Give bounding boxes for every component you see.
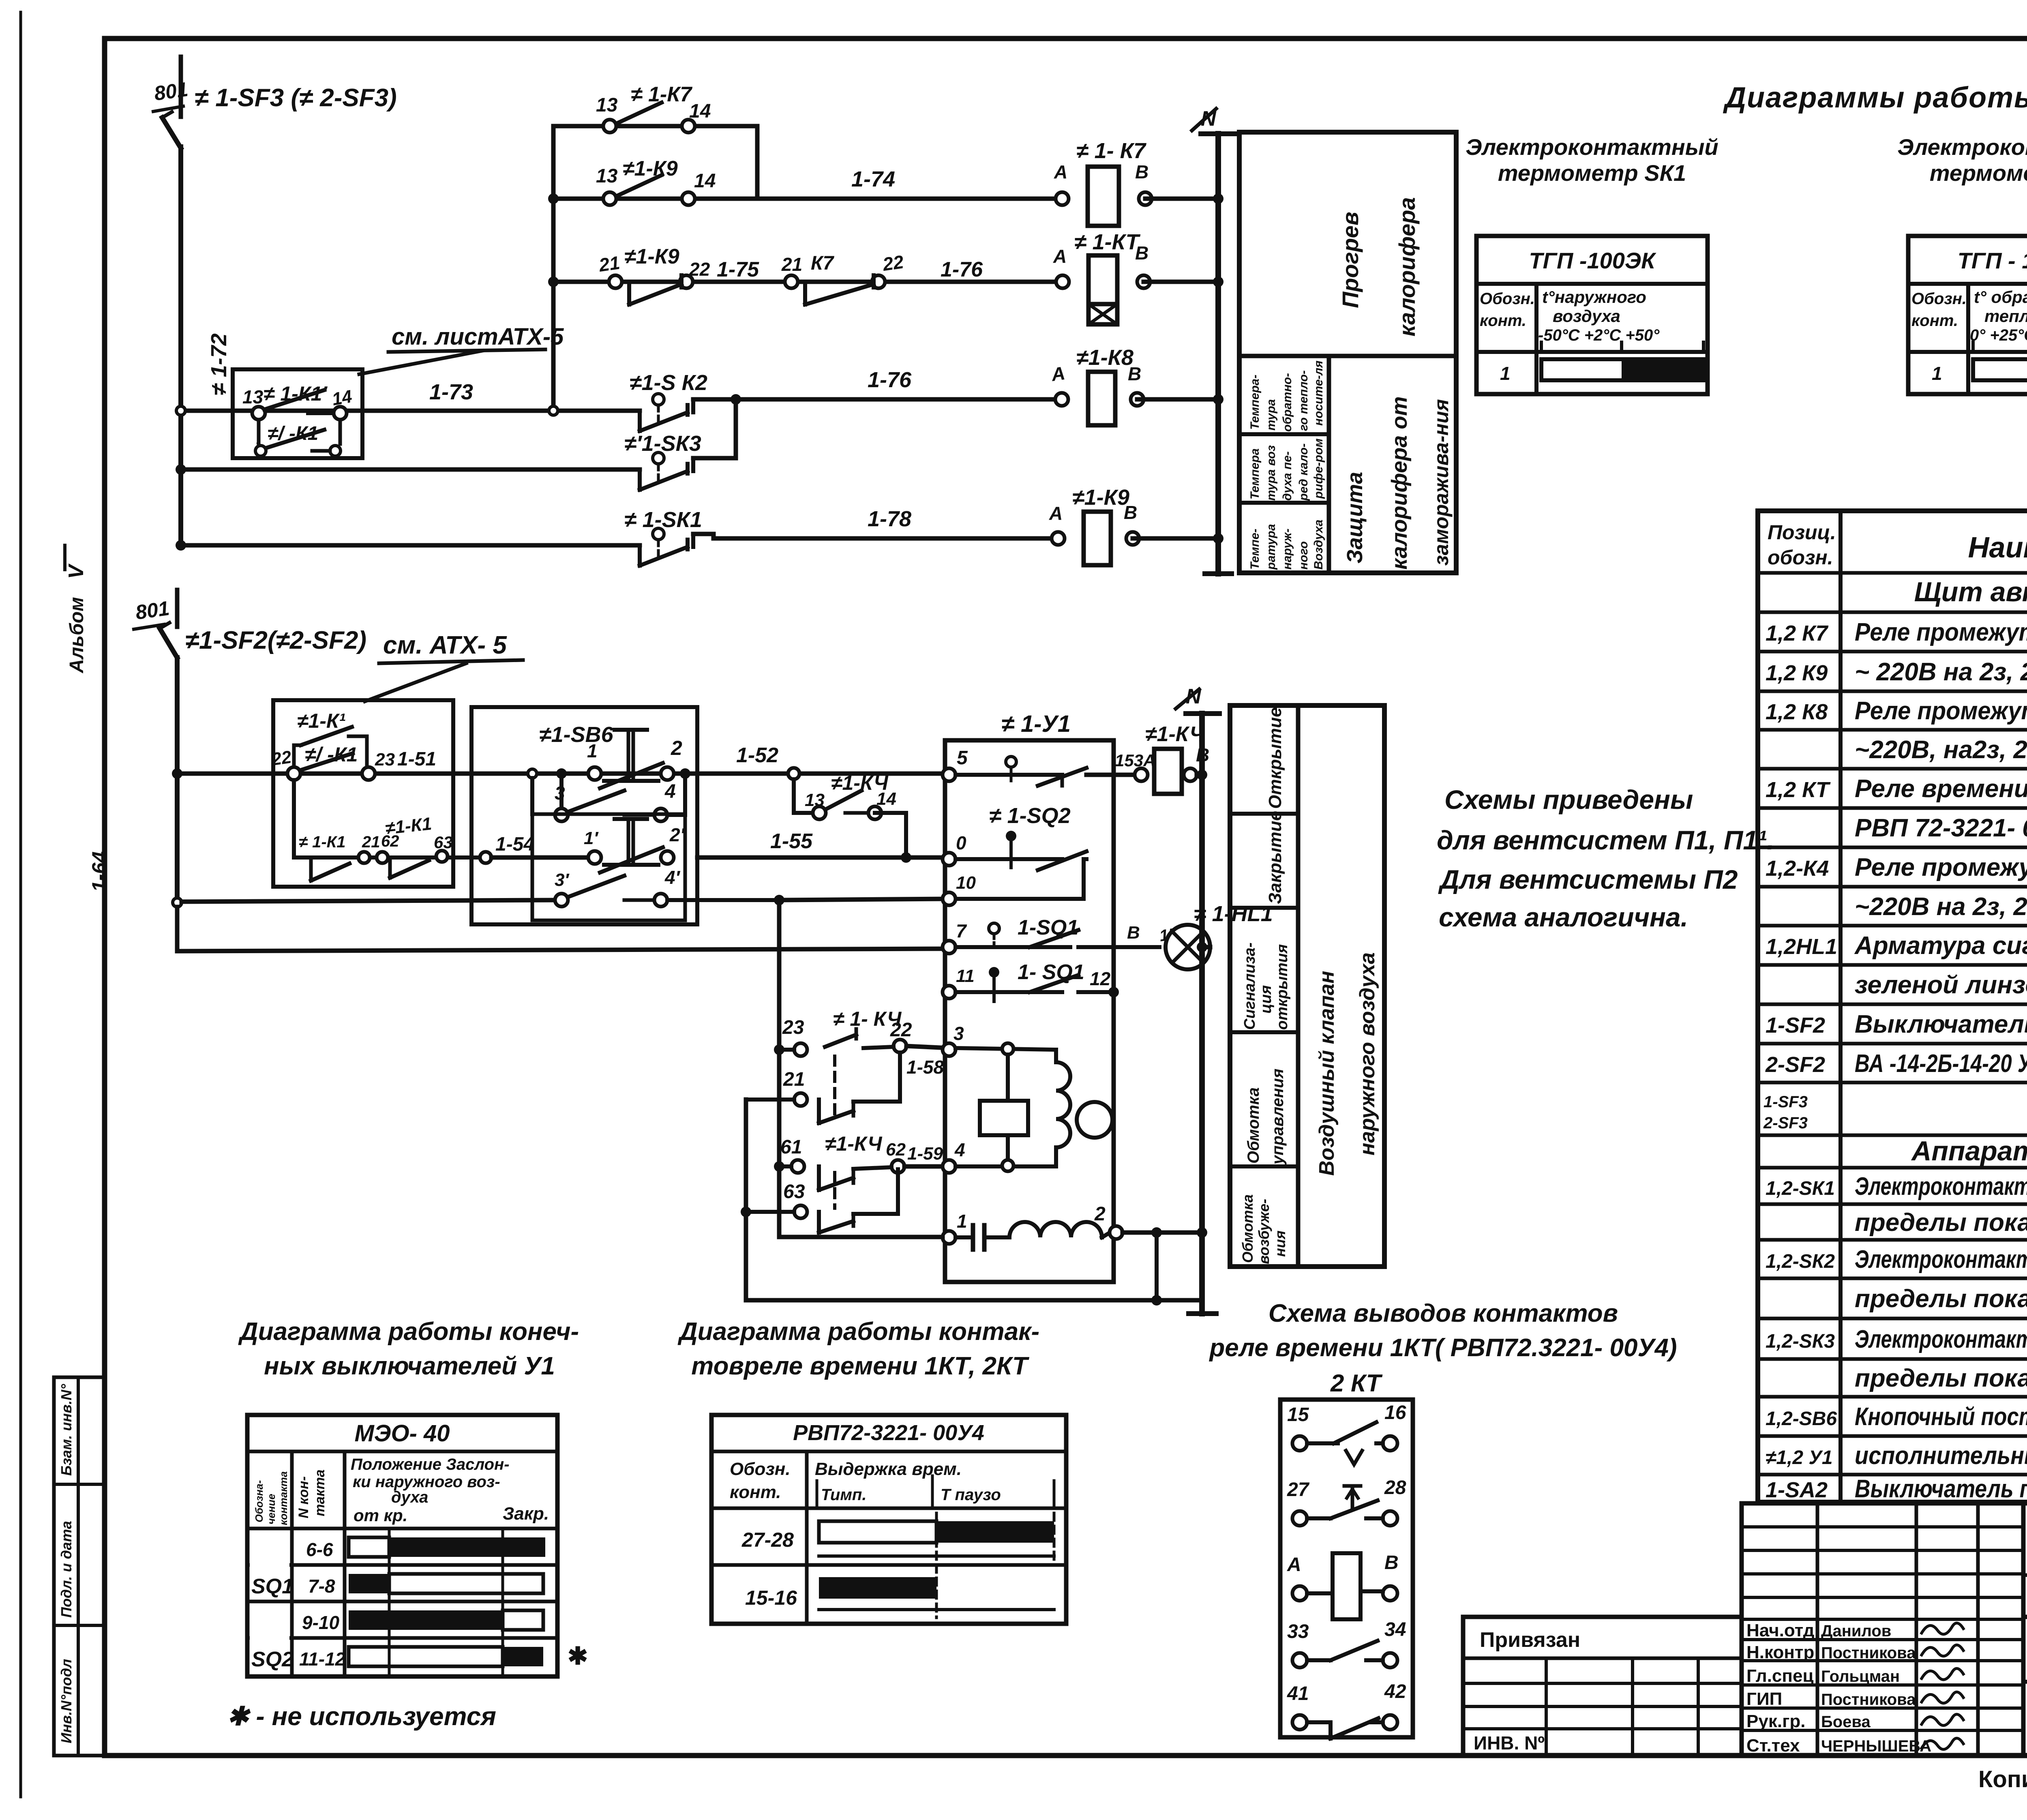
staff row Нач.отд <box>1746 1621 1891 1640</box>
N bus circuit 2 <box>1199 714 1205 1314</box>
svg-text:Реле промежуточное РПУ2- 0622: Реле промежуточное РПУ2- 06222УЗА <box>1855 853 2027 881</box>
svg-text:0: 0 <box>956 832 966 853</box>
svg-text:41: 41 <box>1287 1683 1309 1704</box>
section Apparatura po mestu <box>1911 1136 2027 1166</box>
svg-text:14: 14 <box>689 101 711 122</box>
terminal 7 <box>943 941 956 954</box>
svg-text:≠′1-SК3: ≠′1-SК3 <box>624 431 701 456</box>
svg-text:1-SF2: 1-SF2 <box>1766 1013 1825 1038</box>
svg-text:А: А <box>1287 1554 1301 1576</box>
svg-text:Прогрев: Прогрев <box>1337 212 1363 308</box>
row SB6 <box>1766 1403 2027 1431</box>
svg-text:14: 14 <box>694 170 716 192</box>
feed wire from SF2 bus lower <box>173 898 182 907</box>
lower row in K1 box <box>294 855 480 860</box>
svg-text:1-58: 1-58 <box>906 1057 944 1078</box>
link 62 to 63 output <box>896 1169 900 1214</box>
2KT box <box>1280 1400 1413 1737</box>
svg-text:Диаграмма работы контак-: Диаграмма работы контак- <box>677 1318 1039 1346</box>
svg-text:13: 13 <box>596 165 618 187</box>
svg-text:4: 4 <box>664 781 676 802</box>
link 22 to 21 output <box>898 1053 902 1102</box>
svg-text:пределы показаний -50°С ÷ +5: пределы показаний -50°С ÷ +50°С <box>1855 1209 2027 1237</box>
inner frame of SB6 contacts <box>532 814 685 920</box>
svg-text:открытия: открытия <box>1274 944 1291 1030</box>
wire K7 to N <box>1145 197 1218 201</box>
wire SK3 row <box>181 467 640 472</box>
svg-text:153А: 153А <box>1115 751 1155 770</box>
row SF2 b <box>1765 1050 2027 1078</box>
svg-text:2′: 2′ <box>669 824 686 845</box>
svg-text:Альбом: Альбом <box>66 597 88 673</box>
svg-text:~220В, на2з, 2р, 2п конт.: ~220В, на2з, 2р, 2п конт. <box>1855 736 2027 764</box>
svg-text:2-SF2: 2-SF2 <box>1765 1053 1825 1077</box>
contact 61 1-K4 62 <box>791 1160 804 1173</box>
svg-text:≠/ -К1: ≠/ -К1 <box>268 423 318 444</box>
wire 21/63 common to bottom <box>744 1100 748 1300</box>
svg-text:≠ 1-К1′: ≠ 1-К1′ <box>264 382 328 405</box>
svg-text:Закрытие: Закрытие <box>1265 811 1285 904</box>
svg-text:см. листАТХ-5: см. листАТХ-5 <box>392 324 564 350</box>
svg-text:Для вентсистемы П2: Для вентсистемы П2 <box>1438 864 1738 894</box>
svg-text:1-74: 1-74 <box>851 167 895 191</box>
wire from K4 block to terminal 1 <box>779 1235 943 1239</box>
svg-text:1,2 К9: 1,2 К9 <box>1766 661 1828 685</box>
staff row Н.контр <box>1746 1642 1916 1662</box>
contact 13 1-K7 14 <box>603 103 695 133</box>
svg-text:1,2-SК1: 1,2-SК1 <box>1766 1178 1835 1199</box>
N bus circuit 1 <box>1215 134 1221 574</box>
staff row Гл.спец <box>1746 1666 1900 1686</box>
MEO bar row wB <box>349 1647 503 1666</box>
svg-text:ных выключателей У1: ных выключателей У1 <box>264 1352 555 1380</box>
svg-text:Электроконтактный: Электроконтактный <box>1466 134 1718 160</box>
row SK2 <box>1766 1245 2027 1273</box>
svg-text:10: 10 <box>956 873 976 893</box>
relay coil 1-K4 <box>1154 749 1182 794</box>
svg-text:Сигнализа-: Сигнализа- <box>1241 942 1258 1030</box>
svg-text:1-76: 1-76 <box>941 258 983 281</box>
svg-text:~ 220В на 2з, 2р конт.: ~ 220В на 2з, 2р конт. <box>1855 658 2027 686</box>
mech link dashes 2 <box>833 1173 836 1208</box>
row HL1 b <box>1855 971 2027 999</box>
bus wire below SF2 <box>175 658 180 902</box>
wire 1-76 to K8 <box>693 397 736 402</box>
row SF2 <box>1766 1010 2027 1038</box>
svg-text:≠1-К8: ≠1-К8 <box>1076 345 1133 370</box>
svg-text:33: 33 <box>1287 1621 1309 1642</box>
svg-text:3′: 3′ <box>555 870 570 890</box>
svg-text:Обозн.: Обозн. <box>1480 290 1535 308</box>
svg-text:15: 15 <box>1287 1404 1309 1426</box>
MEO merged cells fix <box>250 1531 289 1599</box>
mech link dashes <box>833 1056 836 1117</box>
svg-text:Н.контр: Н.контр <box>1746 1642 1814 1662</box>
svg-text:обратно-: обратно- <box>1281 373 1294 432</box>
vertical to bottom return <box>1155 1233 1159 1295</box>
svg-text:N кон-: N кон- <box>296 1476 311 1518</box>
svg-text:Обозн.: Обозн. <box>1911 290 1967 308</box>
sheet left edge line <box>19 12 22 1797</box>
wire 1-73 row <box>181 409 640 413</box>
svg-text:Реле промежуточное РПУ2-062: Реле промежуточное РПУ2-06222 УЗА <box>1855 697 2027 725</box>
svg-text:801: 801 <box>134 597 171 624</box>
terminal 2 <box>1110 1226 1123 1239</box>
svg-text:ЧЕРНЫШЕВА: ЧЕРНЫШЕВА <box>1821 1737 1931 1755</box>
relay coil 1-K8 <box>1088 372 1115 425</box>
row K4 b <box>1855 893 2027 921</box>
svg-text:Постникова: Постникова <box>1821 1691 1916 1709</box>
svg-text:t°наружного: t°наружного <box>1542 287 1646 307</box>
MEO table <box>247 1415 557 1676</box>
svg-text:зеленой линзой АС-22D ~220: зеленой линзой АС-22D ~220В,50Гц <box>1855 971 2027 999</box>
svg-text:1: 1 <box>1500 363 1511 384</box>
svg-text:го тепло-: го тепло- <box>1297 370 1310 431</box>
svg-text:2-SF3: 2-SF3 <box>1763 1114 1808 1132</box>
svg-text:7: 7 <box>956 920 967 941</box>
svg-text:7-8: 7-8 <box>308 1576 335 1597</box>
svg-text:1,2 К7: 1,2 К7 <box>1766 621 1829 645</box>
svg-text:1-76: 1-76 <box>868 368 912 392</box>
svg-text:Диаграмма работы конеч-: Диаграмма работы конеч- <box>238 1318 579 1346</box>
svg-text:34: 34 <box>1384 1619 1406 1640</box>
svg-text:МЭО- 40: МЭО- 40 <box>354 1420 450 1447</box>
svg-text:конт.: конт. <box>1480 312 1526 330</box>
MEO bars <box>388 1528 391 1676</box>
svg-text:духа пе-: духа пе- <box>1281 451 1294 501</box>
K4 aux contact feed vertical <box>777 900 782 1237</box>
svg-text:V: V <box>64 563 88 579</box>
svg-text:Реле промежуточное РПУ2- 0622: Реле промежуточное РПУ2- 0622 0УЗА <box>1855 618 2027 646</box>
svg-text:≠1-SF2(≠2-SF2): ≠1-SF2(≠2-SF2) <box>185 626 366 654</box>
contact 1-K1 lower right <box>388 857 392 878</box>
svg-text:Тимп.: Тимп. <box>821 1486 866 1504</box>
svg-text:Открытие: Открытие <box>1265 707 1285 809</box>
svg-text:22: 22 <box>890 1019 912 1041</box>
bypass contact 3-4 <box>559 774 564 815</box>
svg-text:≠1-К9: ≠1-К9 <box>623 157 678 180</box>
svg-text:Обозн.: Обозн. <box>730 1459 791 1479</box>
terminal 10 <box>943 892 956 905</box>
svg-text:1,2-SК3: 1,2-SК3 <box>1766 1331 1835 1352</box>
svg-text:духа: духа <box>391 1488 428 1506</box>
svg-text:16: 16 <box>1384 1402 1406 1423</box>
parts list rows <box>1758 571 2027 575</box>
svg-text:ТГП -100ЭК: ТГП -100ЭК <box>1529 248 1656 273</box>
svg-text:Электроконтактный термометр Т: Электроконтактный термометр ТГП-100ЭК <box>1855 1173 2027 1200</box>
wire 1-64 row <box>177 772 949 776</box>
svg-text:такта: такта <box>312 1469 328 1516</box>
svg-text:наруж-: наруж- <box>1281 529 1294 570</box>
svg-text:≠1-К¹: ≠1-К¹ <box>297 710 346 732</box>
svg-text:≠ 1-К7: ≠ 1-К7 <box>631 83 692 106</box>
RVP table <box>711 1415 1066 1624</box>
terminal 1 <box>943 1231 956 1244</box>
title block top line <box>1742 1501 2027 1506</box>
svg-text:6-6: 6-6 <box>306 1539 333 1560</box>
breaker 1-SF2 <box>175 590 180 627</box>
svg-text:Обозна-: Обозна- <box>253 1480 265 1522</box>
svg-text:управления: управления <box>1269 1069 1287 1165</box>
junction circle on 1-64 at SB6 <box>528 769 537 778</box>
svg-text:4: 4 <box>954 1139 965 1160</box>
contact K1 bracket (1-K1 sup) <box>294 745 301 768</box>
MEO bar row Bw <box>349 1610 503 1630</box>
svg-text:пределы показаний 0°÷ +150°С: пределы показаний 0°÷ +150°С <box>1855 1285 2027 1313</box>
svg-text:Электроконтактный термометрТГ: Электроконтактный термометрТГП-100ЭК <box>1855 1245 2027 1273</box>
svg-text:-50°С +2°С +50°: -50°С +2°С +50° <box>1538 326 1660 344</box>
svg-text:≠ 1-К1: ≠ 1-К1 <box>299 833 345 851</box>
wire top branch row <box>553 124 757 129</box>
timer coil A-B <box>1287 1552 1399 1619</box>
svg-text:14: 14 <box>876 789 896 809</box>
svg-text:≠ 1-SК1: ≠ 1-SК1 <box>624 508 702 532</box>
svg-text:тура воз: тура воз <box>1264 445 1278 501</box>
svg-text:схема аналогична.: схема аналогична. <box>1439 902 1688 932</box>
svg-text:В: В <box>1127 923 1140 943</box>
svg-text:1-SQ1: 1-SQ1 <box>1018 916 1078 939</box>
row K9 <box>1766 658 2027 686</box>
svg-text:ИНВ. Nº: ИНВ. Nº <box>1474 1732 1545 1754</box>
svg-text:SQ2: SQ2 <box>251 1648 294 1671</box>
svg-text:Положение Заслон-: Положение Заслон- <box>351 1456 510 1473</box>
svg-text:2 КТ: 2 КТ <box>1330 1370 1383 1397</box>
svg-text:РВП 72-3221- 00У4 ~220В: РВП 72-3221- 00У4 ~220В <box>1855 814 2027 842</box>
svg-text:РВП72-3221- 00У4: РВП72-3221- 00У4 <box>793 1421 984 1445</box>
wire 1-54 to SB6 <box>480 852 491 863</box>
svg-text:✱ - не используется: ✱ - не используется <box>227 1702 496 1731</box>
contact 13 1-K1p 14 <box>252 407 265 420</box>
svg-text:исполнительный механизм ~220: исполнительный механизм ~220В МЭО <box>1855 1442 2027 1470</box>
svg-text:Схемы приведены: Схемы приведены <box>1444 785 1693 815</box>
TP number cell <box>2021 1503 2026 1617</box>
svg-text:1: 1 <box>587 740 598 761</box>
svg-text:1,2-SВ6: 1,2-SВ6 <box>1766 1408 1837 1430</box>
contact 21 1-K4 <box>794 1093 807 1106</box>
row SF3 <box>1763 1093 2027 1132</box>
svg-text:≠1,2 У1: ≠1,2 У1 <box>1766 1447 1833 1468</box>
svg-text:1,2HL1: 1,2HL1 <box>1766 935 1837 959</box>
signatures squiggles <box>1922 1623 1963 1634</box>
svg-text:≠1-КЧ: ≠1-КЧ <box>1145 722 1205 746</box>
timer contact 15-16 <box>1287 1402 1406 1464</box>
svg-text:4′: 4′ <box>664 867 681 888</box>
svg-text:23: 23 <box>375 750 395 770</box>
svg-text:11: 11 <box>956 966 975 986</box>
svg-text:Обмотка: Обмотка <box>1239 1194 1256 1263</box>
svg-text:ния: ния <box>1272 1230 1288 1257</box>
button box 1-SB6 <box>471 707 697 924</box>
svg-text:14: 14 <box>330 386 354 409</box>
svg-text:товреле времени 1КТ, 2КТ: товреле времени 1КТ, 2КТ <box>691 1352 1030 1380</box>
svg-text:Подл. и дата: Подл. и дата <box>58 1521 75 1618</box>
svg-text:Воздушный клапан: Воздушный клапан <box>1315 971 1339 1176</box>
junction 1-73/riser <box>549 406 558 415</box>
left margin stamp table <box>54 1377 105 1756</box>
svg-text:Постникова: Постникова <box>1821 1644 1916 1662</box>
inductor <box>1009 1222 1102 1237</box>
svg-text:Привязан: Привязан <box>1480 1628 1580 1652</box>
svg-text:✱: ✱ <box>568 1642 588 1670</box>
aux contact box 1-K1 (see sheet ATX-5) <box>233 369 362 458</box>
svg-text:Данилов: Данилов <box>1821 1622 1891 1640</box>
svg-text:21: 21 <box>781 254 802 275</box>
svg-text:22: 22 <box>689 259 710 280</box>
svg-text:ного: ного <box>1297 541 1310 570</box>
wire branch join vertical <box>755 126 760 199</box>
svg-text:2: 2 <box>671 737 682 759</box>
main title box <box>2023 1617 2027 1756</box>
svg-text:61: 61 <box>780 1136 802 1158</box>
svg-text:13: 13 <box>596 94 618 116</box>
svg-text:В: В <box>1384 1552 1399 1573</box>
svg-text:Боева: Боева <box>1821 1713 1871 1731</box>
svg-text:0° +25°С +150°: 0° +25°С +150° <box>1970 326 2027 344</box>
svg-text:1-51: 1-51 <box>397 748 436 770</box>
staff row Рук.гр. <box>1746 1711 1871 1731</box>
row7 feed long wire <box>177 949 949 951</box>
svg-text:27-28: 27-28 <box>741 1528 794 1551</box>
stub from 1-64 to inner box <box>530 778 534 814</box>
row KT b <box>1855 814 2027 842</box>
svg-text:1,2 К8: 1,2 К8 <box>1766 700 1828 724</box>
svg-text:носите-ля: носите-ля <box>1312 360 1325 426</box>
MEO bar row wb <box>349 1537 389 1557</box>
svg-text:Наименование: Наименование <box>1968 532 2027 564</box>
wire 1-55 row <box>697 855 949 860</box>
svg-text:Инв.N°подл: Инв.N°подл <box>58 1659 75 1743</box>
svg-text:Реле времени пневматическое: Реле времени пневматическое <box>1855 775 2027 803</box>
row K7 <box>1766 618 2027 646</box>
svg-text:реле времени 1КТ( РВП72.3221-: реле времени 1КТ( РВП72.3221- 00У4) <box>1208 1334 1677 1362</box>
svg-text:≠1-К9: ≠1-К9 <box>624 245 679 268</box>
svg-text:В: В <box>1135 161 1148 182</box>
svg-text:62: 62 <box>886 1140 906 1160</box>
limit contact SQ2 0-10 <box>956 857 1062 861</box>
svg-text:Выдержка врем.: Выдержка врем. <box>815 1459 962 1479</box>
actuator control winding rect <box>980 1101 1028 1135</box>
svg-text:ГИП: ГИП <box>1746 1689 1782 1709</box>
wire row 1-74 <box>553 197 1062 201</box>
svg-text:Выключатель пакетный П82.10/Н: Выключатель пакетный П82.10/Н2-У3.30 <box>1855 1475 2027 1503</box>
contact 13 1-K9 14 <box>603 175 695 205</box>
bypass contact 3p-4p <box>555 894 568 907</box>
svg-text:А: А <box>1054 161 1067 182</box>
svg-text:1-64: 1-64 <box>88 851 111 892</box>
svg-text:Бзам. инв.N°: Бзам. инв.N° <box>58 1384 75 1476</box>
svg-text:конт.: конт. <box>1911 312 1958 330</box>
svg-text:1-59: 1-59 <box>907 1144 943 1164</box>
svg-text:23: 23 <box>782 1017 804 1038</box>
terminal 5 <box>943 768 956 781</box>
timer contact 41-42 <box>1287 1681 1406 1739</box>
svg-text:Темпера-: Темпера- <box>1248 375 1262 430</box>
bus wire 1-72 vertical <box>178 147 183 545</box>
wire 10 row from feed <box>779 899 949 900</box>
svg-text:А: А <box>1049 503 1063 524</box>
svg-text:Схема выводов контактов: Схема выводов контактов <box>1268 1299 1618 1327</box>
MEO bar row bw <box>349 1574 389 1593</box>
actuator motor circle <box>1077 1102 1112 1138</box>
relay contact box 1-K1 <box>273 700 453 887</box>
actuator coil bumps <box>1056 1062 1070 1147</box>
svg-text:ред кало-: ред кало- <box>1297 444 1310 501</box>
svg-text:≠1-S К2: ≠1-S К2 <box>630 371 707 395</box>
svg-text:≠ 1-HL1: ≠ 1-HL1 <box>1194 902 1273 926</box>
svg-text:Выключатель автоматический: Выключатель автоматический <box>1855 1010 2027 1038</box>
button contact 1p-2p <box>588 851 601 864</box>
svg-text:ратура: ратура <box>1264 524 1278 570</box>
svg-text:1: 1 <box>957 1211 967 1232</box>
svg-text:≠ 1-КТ: ≠ 1-КТ <box>1074 230 1141 254</box>
row K4 <box>1766 853 2027 881</box>
svg-text:21: 21 <box>362 833 380 851</box>
limit contact row5 <box>956 773 1062 777</box>
wire KT to N <box>1144 280 1218 284</box>
button 2 stem <box>627 819 630 865</box>
svg-text:42: 42 <box>1384 1681 1406 1702</box>
svg-text:≠ 1-SF3 (≠ 2-SF3): ≠ 1-SF3 (≠ 2-SF3) <box>195 84 397 112</box>
svg-text:1- SQ1: 1- SQ1 <box>1018 960 1084 984</box>
breaker 1-SF3 <box>179 57 183 117</box>
svg-text:для вентсистем П1, П1¹.: для вентсистем П1, П1¹. <box>1437 825 1774 855</box>
svg-text:Аппаратура по месту: Аппаратура по месту <box>1911 1136 2027 1166</box>
svg-text:Темпера: Темпера <box>1248 448 1262 499</box>
terminal 11 <box>943 986 956 999</box>
RVP bar 27-28 <box>819 1521 936 1543</box>
svg-text:теплоносителя: теплоносителя <box>1984 307 2027 326</box>
svg-text:1,2 КТ: 1,2 КТ <box>1766 778 1831 802</box>
svg-text:заморажива-ния: заморажива-ния <box>1430 399 1453 566</box>
svg-text:Закр.: Закр. <box>503 1504 549 1524</box>
row K8 b <box>1855 736 2027 764</box>
contact 21 1-K9 22 <box>609 275 693 304</box>
svg-text:21: 21 <box>597 252 621 276</box>
svg-text:Нач.отд: Нач.отд <box>1746 1621 1815 1640</box>
staff row ГИП <box>1746 1689 1916 1709</box>
svg-text:≠1-КЧ: ≠1-КЧ <box>825 1132 883 1155</box>
parts list table frame <box>1758 511 2027 1502</box>
svg-text:≠ 1-SQ2: ≠ 1-SQ2 <box>989 804 1071 828</box>
svg-text:Гл.спец: Гл.спец <box>1746 1666 1814 1686</box>
row SK1 <box>1766 1173 2027 1200</box>
svg-text:Воздуха: Воздуха <box>1312 520 1325 570</box>
row SK1 b <box>1855 1209 2027 1237</box>
svg-text:1,2-SК2: 1,2-SК2 <box>1766 1251 1835 1272</box>
valve function box <box>1230 705 1384 1267</box>
svg-text:801: 801 <box>153 78 189 105</box>
svg-text:9-10: 9-10 <box>302 1612 339 1633</box>
svg-text:1-SF3: 1-SF3 <box>1763 1093 1808 1111</box>
holding contact 13 1-K4 14 <box>792 779 796 813</box>
svg-text:Щит автоматизации: Щит автоматизации <box>1914 577 2027 607</box>
timer contact 33-34 <box>1287 1619 1406 1668</box>
svg-text:2: 2 <box>1094 1203 1106 1225</box>
svg-text:Арматура сигнальной лампы с: Арматура сигнальной лампы с <box>1854 932 2027 960</box>
limit contact SQ1 11-12 <box>956 990 1062 994</box>
svg-text:термометр SК2: термометр SК2 <box>1930 160 2027 186</box>
svg-text:63: 63 <box>434 833 453 852</box>
staff table <box>1742 1503 2023 1756</box>
relay coil 1-K7 <box>1088 167 1119 226</box>
svg-text:рифе-ром: рифе-ром <box>1312 438 1325 499</box>
svg-text:≠/ -К1: ≠/ -К1 <box>305 743 358 766</box>
svg-text:Кнопочный пост управления ПКЕ-: Кнопочный пост управления ПКЕ-212-2У3 <box>1855 1403 2027 1431</box>
svg-text:22: 22 <box>270 747 293 770</box>
SK3 parallel vertical <box>734 399 738 458</box>
row HL1 <box>1766 932 2027 960</box>
svg-text:наружного воздуха: наружного воздуха <box>1356 952 1379 1155</box>
